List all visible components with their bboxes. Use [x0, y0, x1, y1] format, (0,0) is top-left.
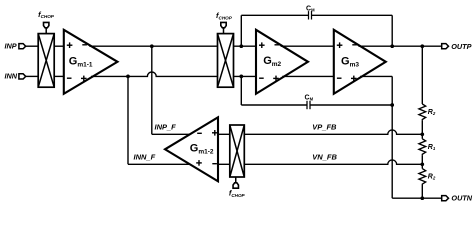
wire R1 to VN_FB node: [421, 156, 423, 165]
clock pin of CH2: [221, 22, 226, 33]
svg-text:INN_F: INN_F: [134, 152, 156, 161]
svg-text:INP_F: INP_F: [155, 122, 177, 131]
label f_CHOP (CH2): [216, 11, 233, 20]
wire CH2 to Gm2 (+in): [234, 45, 257, 47]
label OUTN: [451, 193, 472, 202]
resistor R1: [419, 139, 426, 156]
output terminal OUTP: [442, 44, 449, 49]
label R1: [428, 144, 436, 151]
wire R2 to VP_FB node: [421, 121, 423, 134]
op-amp Gm3: [334, 30, 386, 94]
label Gm2: [263, 55, 281, 68]
node VN_FB junction: [420, 162, 424, 166]
svg-text:OUTP: OUTP: [451, 42, 471, 51]
label Gm1-1: [69, 55, 93, 68]
label OUTP: [451, 42, 471, 51]
svg-text:INP: INP: [5, 41, 17, 50]
wire Gm2 bottom output to Gm3: [282, 75, 334, 77]
node CM bottom junction: [390, 103, 394, 107]
wire Gm2 top output to Gm3: [281, 45, 334, 47]
wire bottom CM rail (left of cap): [241, 104, 307, 106]
wire Gm1-1 top output to CH2: [89, 45, 217, 47]
wire bottom CM rail (right of cap): [310, 104, 392, 106]
label VP_FB: [312, 122, 337, 131]
node CM top junction on OUTP wire: [390, 44, 394, 48]
node VP_FB junction: [420, 132, 424, 136]
output terminal OUTN: [442, 196, 449, 201]
wire Gm1-2 +in to CH3: [218, 133, 230, 135]
label INP_F: [155, 122, 177, 131]
svg-text:VN_FB: VN_FB: [312, 152, 337, 161]
svg-text:INN: INN: [5, 72, 18, 81]
wire Gm1-2 -in to CH3: [218, 163, 230, 165]
label R2 (top): [428, 109, 436, 116]
node CM bottom tap: [239, 75, 243, 79]
input terminal INP: [19, 44, 26, 49]
wire Gm3 top output to OUTP: [358, 45, 441, 47]
resistor R2 (top): [419, 104, 426, 121]
wire CM bottom drop: [240, 76, 242, 105]
label Gm3: [341, 56, 359, 69]
chopper CH1: [38, 34, 54, 88]
wire top CM down to OUTP wire: [391, 15, 393, 46]
svg-text:VP_FB: VP_FB: [312, 122, 337, 131]
resistor R2 (bottom): [419, 169, 426, 186]
wire CH2 to Gm2 (-in): [234, 75, 257, 77]
wire INN_F run to Gm1-2: [128, 163, 192, 165]
wire CH1 to Gm1-1 (+in): [54, 45, 64, 47]
wire OUTP to R2 top: [421, 46, 423, 104]
wire OUTN bottom run: [392, 197, 442, 199]
svg-text:OUTN: OUTN: [451, 193, 472, 202]
wire VN_FB (hops over OUTN vertical): [244, 160, 422, 164]
wire INN_F drop (bottom wire down to INN_F): [127, 76, 129, 164]
label CM (top): [306, 6, 315, 13]
wire top CM rail (left of cap): [241, 14, 308, 16]
wire VP_FB node to R1: [421, 134, 423, 139]
capacitor CM (bottom): [307, 101, 310, 109]
label INN_F: [134, 152, 156, 161]
op-amp Gm2: [256, 30, 308, 94]
label VN_FB: [312, 152, 337, 161]
wire VP_FB (hops over OUTN vertical): [244, 130, 422, 134]
label CM (bottom): [305, 94, 314, 101]
wire INP_F run to Gm1-2: [152, 133, 192, 135]
wire INP to chopper CH1: [26, 45, 39, 47]
label R2 (bottom): [428, 174, 436, 181]
wire CH1 to Gm1-1 (-in): [54, 75, 64, 77]
node R-chain top junction: [420, 44, 424, 48]
chopper CH3: [230, 125, 245, 177]
clock pin of CH1: [44, 22, 49, 33]
label f_CHOP (CH1): [38, 10, 55, 19]
wire Gm1-1 bottom output to CH2 (hops over INP_F drop): [91, 72, 218, 76]
op-amp Gm1-2: [165, 117, 218, 181]
node R-chain bottom junction: [420, 196, 424, 200]
capacitor CM (top): [309, 11, 312, 19]
clock pin of CH3: [233, 177, 238, 188]
label INP: [5, 41, 17, 50]
wire INP_F drop (top wire down to INP_F): [151, 46, 153, 134]
label Gm1-2: [190, 142, 214, 155]
wire Gm3 bottom output to corner: [360, 75, 392, 77]
wire VN_FB node to R2: [421, 164, 423, 168]
input terminal INN: [19, 74, 26, 79]
label f_CHOP (CH3): [229, 188, 246, 197]
wire OUTN vertical (hops over VP_FB/VN_FB): [391, 76, 393, 198]
wire top CM rail (right of cap): [312, 14, 393, 16]
node CM top tap: [239, 44, 243, 48]
label INN: [5, 72, 18, 81]
node INN_F tap on bottom wire: [126, 75, 130, 79]
chopper CH2: [218, 34, 234, 88]
node INP_F tap on top wire: [150, 44, 154, 48]
op-amp Gm1-1: [64, 30, 118, 94]
wire CM top riser: [240, 15, 242, 46]
wire INN to chopper CH1: [26, 75, 39, 77]
wire R2 to OUTN run: [421, 186, 423, 199]
